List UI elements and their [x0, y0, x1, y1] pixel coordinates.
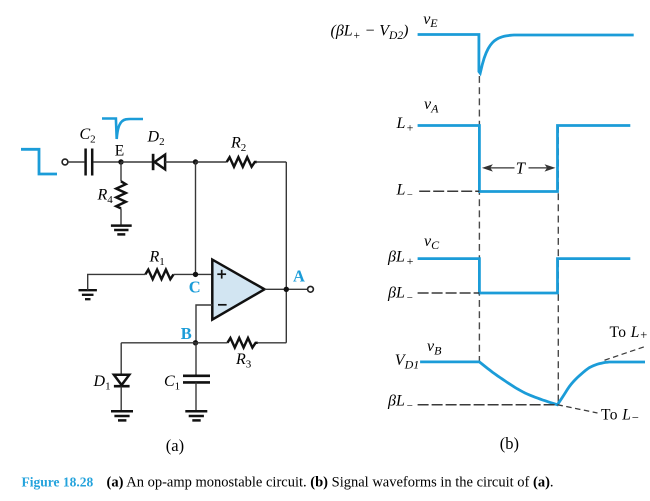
wire R2 to right corner [257, 161, 287, 163]
dashed betaL- level line (vC) [418, 292, 480, 294]
wire D2 to junction [165, 161, 196, 163]
input terminal [62, 159, 68, 165]
svg-text:A: A [293, 267, 305, 286]
svg-text:(b): (b) [500, 434, 519, 453]
node junction D2/R2 [193, 159, 198, 164]
wire junction to R2 [196, 161, 227, 163]
wire B down to C1 [195, 343, 197, 375]
wire junction down to node C [195, 162, 197, 274]
wire op-amp output [265, 288, 308, 290]
wire R3 to right vertical [258, 342, 287, 344]
resistor R2 [227, 135, 257, 167]
wire node B to R3 [196, 342, 228, 344]
dashed asymptote To L- [557, 405, 639, 425]
dashed vertical guide 1 [478, 76, 480, 361]
svg-text:(a) An op-amp monostable circu: (a) An op-amp monostable circuit. (b) Si… [107, 475, 554, 491]
T interval arrows [482, 159, 556, 178]
svg-text:(a): (a) [166, 436, 184, 455]
svg-text:B: B [181, 324, 192, 343]
wire E to D2 [121, 161, 152, 163]
dashed asymptote To L+ [605, 324, 648, 360]
wire R1 to node C [174, 273, 213, 275]
dashed vertical guide 2 [557, 126, 559, 405]
resistor R4 [97, 181, 126, 208]
op-amp U1 [212, 260, 264, 320]
wire input to C2 [68, 161, 85, 163]
resistor R3 [228, 338, 258, 371]
node E [115, 143, 124, 165]
wire inverting input [196, 305, 212, 343]
node A [284, 267, 305, 292]
wire D1 to ground [120, 386, 122, 411]
resistor R1 [145, 249, 173, 280]
wire right vertical feedback [285, 162, 287, 343]
capacitor C2 [80, 126, 96, 176]
figure caption [22, 475, 554, 491]
wire C2 to node E [93, 161, 121, 163]
wire E down to R4 [120, 162, 122, 181]
output terminal [308, 286, 314, 292]
wire ground up to R1 level [88, 274, 146, 290]
capacitor C1 [164, 373, 210, 393]
dashed L- level line [419, 190, 479, 192]
ground under D1 [111, 411, 133, 420]
waveform vC trace [418, 259, 631, 293]
node C [189, 272, 201, 297]
wire node B left to D1 [121, 342, 195, 344]
spike waveform at E (blue) [102, 119, 143, 140]
svg-text:E: E [115, 143, 124, 160]
input trigger step (blue) [21, 149, 57, 174]
wire R4 to ground [120, 208, 122, 225]
ground at R1 input [79, 290, 97, 299]
ground under C1 [185, 411, 207, 420]
diode D2 [147, 129, 166, 171]
svg-text:C: C [189, 277, 201, 296]
node B [181, 324, 198, 345]
waveform vA trace [418, 126, 631, 192]
waveform vE trace [418, 35, 634, 74]
ground under R4 [111, 226, 132, 235]
diode D1 [93, 373, 130, 393]
wire B down to D1 [120, 343, 122, 374]
wire C1 to ground [195, 382, 197, 411]
waveform vB trace [420, 362, 645, 405]
svg-text:Figure 18.28: Figure 18.28 [22, 475, 94, 490]
dashed betaL- level line (vB) [418, 404, 556, 406]
